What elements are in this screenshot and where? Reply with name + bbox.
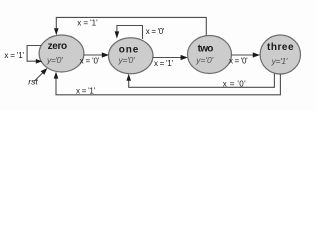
state three — [260, 35, 300, 74]
arrowhead into three left — [253, 52, 260, 57]
arrowhead into zero top — [54, 28, 59, 35]
svg-text:three: three — [267, 42, 294, 53]
svg-text:y='0': y='0' — [46, 55, 63, 65]
arrowhead into zero lower-left — [36, 59, 42, 64]
svg-text:x = '1': x = '1' — [77, 19, 98, 28]
arrowhead into zero bottom — [54, 72, 59, 79]
state zero — [39, 35, 84, 72]
wire: rst reset arrow — [34, 72, 44, 82]
svg-text:x = '0': x = '0' — [223, 79, 246, 88]
arrowhead into two left — [181, 55, 188, 60]
wire: three to zero bottom feedback — [56, 74, 280, 95]
state one — [109, 38, 154, 74]
svg-text:rst: rst — [28, 77, 38, 87]
svg-text:y='0': y='0' — [195, 55, 213, 65]
svg-text:x = '0': x = '0' — [146, 27, 165, 36]
svg-text:y='1': y='1' — [271, 56, 288, 66]
arrowhead rst into zero lower-left — [41, 68, 48, 75]
svg-text:one: one — [119, 44, 139, 55]
svg-text:two: two — [198, 43, 214, 54]
arrowhead into one left — [102, 52, 109, 57]
svg-text:x = '1': x = '1' — [76, 86, 96, 95]
svg-text:zero: zero — [48, 41, 68, 52]
wire: one self-loop top — [117, 26, 143, 40]
svg-text:x = '1': x = '1' — [4, 51, 24, 60]
svg-text:y='0': y='0' — [118, 55, 135, 65]
wire: zero to one — [84, 54, 103, 56]
wire: two to zero top feedback — [56, 17, 206, 35]
state two — [188, 36, 232, 74]
wire: one to two — [153, 57, 182, 59]
svg-text:x = '1': x = '1' — [154, 59, 173, 68]
svg-text:x = '0': x = '0' — [229, 56, 248, 65]
wire: two to three — [232, 54, 254, 56]
arrowhead into one bottom — [126, 74, 131, 81]
svg-text:x = '0': x = '0' — [80, 57, 100, 66]
wire: zero self-loop left — [27, 46, 41, 62]
arrowhead into one top — [115, 31, 120, 38]
wire: three to one bottom feedback — [129, 73, 275, 87]
